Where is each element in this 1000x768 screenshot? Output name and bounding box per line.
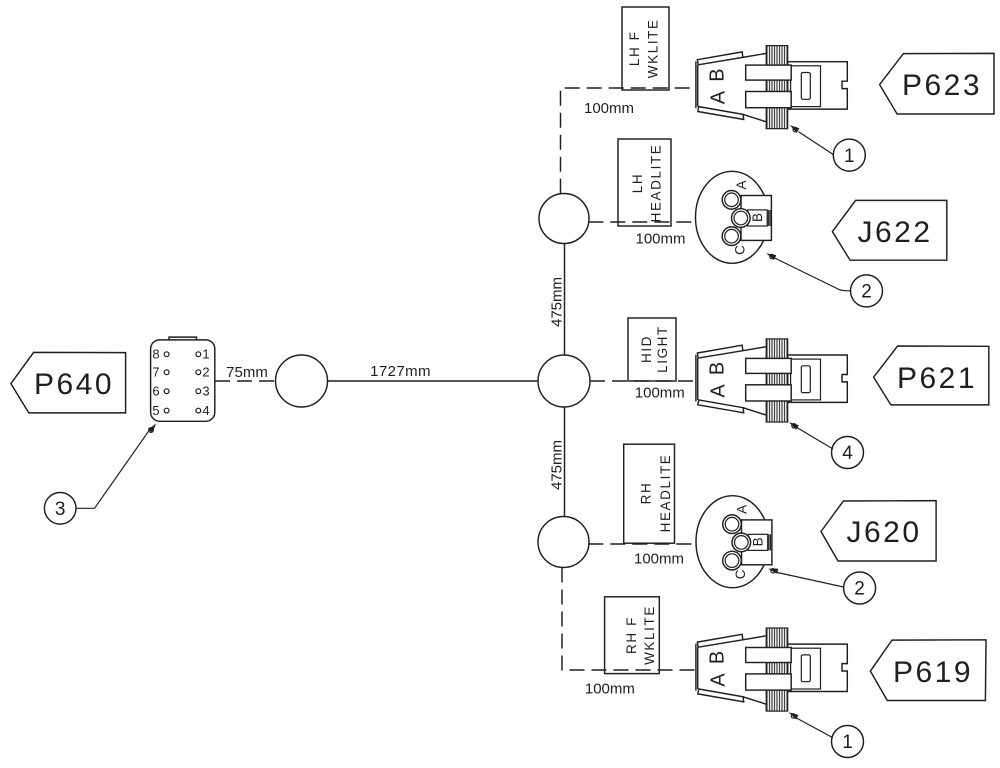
pin 3 bbox=[196, 384, 210, 399]
wire S2 down to S4 bbox=[564, 407, 566, 517]
flag P623 bbox=[880, 53, 994, 114]
svg-text:WKLITE: WKLITE bbox=[642, 605, 657, 665]
wire S2 up to S3 bbox=[564, 244, 566, 356]
svg-text:4: 4 bbox=[202, 403, 209, 418]
pin 6 bbox=[152, 384, 169, 399]
callout 2 leader (J622) bbox=[766, 253, 850, 291]
svg-text:J622: J622 bbox=[857, 216, 932, 249]
svg-text:P619: P619 bbox=[893, 656, 973, 689]
svg-text:100mm: 100mm bbox=[584, 100, 634, 117]
pin 8 bbox=[152, 347, 169, 362]
svg-text:LH F: LH F bbox=[627, 30, 642, 66]
label HID LIGHT bbox=[628, 318, 676, 381]
wire S3 to P623 bbox=[561, 88, 696, 194]
svg-text:6: 6 bbox=[152, 384, 159, 399]
flag J622 bbox=[832, 200, 946, 260]
connector P621 bbox=[696, 339, 847, 422]
flag P640 bbox=[11, 352, 126, 413]
callout 3 leader (X1) bbox=[76, 423, 156, 508]
connector X1 8-pin bbox=[151, 337, 215, 421]
splice S3 bbox=[539, 194, 589, 244]
svg-text:1727mm: 1727mm bbox=[370, 363, 431, 380]
svg-text:1: 1 bbox=[844, 146, 855, 167]
svg-text:5: 5 bbox=[152, 403, 159, 418]
svg-text:2: 2 bbox=[854, 579, 865, 600]
splice S1 bbox=[276, 355, 328, 407]
wire S4 to P619 bbox=[562, 568, 696, 671]
label RH HEADLITE bbox=[624, 444, 675, 543]
svg-text:100mm: 100mm bbox=[634, 551, 684, 568]
pin 7 bbox=[152, 365, 169, 380]
svg-text:1: 1 bbox=[842, 732, 853, 753]
wire S4 to J620 bbox=[588, 543, 696, 545]
svg-text:P623: P623 bbox=[902, 69, 982, 102]
flag P621 bbox=[874, 346, 989, 405]
svg-text:8: 8 bbox=[152, 347, 159, 362]
callout 4 leader (P621) bbox=[789, 422, 833, 449]
callout 2 circle lower bbox=[844, 572, 876, 604]
svg-text:3: 3 bbox=[202, 384, 209, 399]
svg-text:475mm: 475mm bbox=[548, 440, 565, 490]
label LH HEADLITE bbox=[618, 139, 671, 226]
svg-text:HID: HID bbox=[639, 335, 654, 363]
callout 2 circle bbox=[851, 275, 883, 307]
flag P619 bbox=[870, 640, 986, 701]
svg-text:100mm: 100mm bbox=[635, 231, 685, 248]
wire S1 to S2 bbox=[328, 380, 539, 382]
svg-text:P621: P621 bbox=[897, 362, 977, 395]
callout 3 circle bbox=[44, 493, 76, 525]
connector P619 bbox=[696, 628, 847, 711]
svg-text:P640: P640 bbox=[34, 368, 114, 401]
svg-text:2: 2 bbox=[861, 282, 872, 303]
svg-text:75mm: 75mm bbox=[226, 364, 268, 381]
splice S2 bbox=[538, 355, 590, 407]
svg-text:J620: J620 bbox=[846, 516, 921, 549]
svg-text:2: 2 bbox=[202, 365, 209, 380]
pin 2 bbox=[196, 365, 210, 380]
callout 1 leader (P619) bbox=[789, 712, 833, 737]
connector J622 bbox=[696, 171, 772, 263]
pin 5 bbox=[152, 403, 169, 418]
svg-text:RH: RH bbox=[638, 482, 653, 505]
svg-text:3: 3 bbox=[55, 499, 66, 520]
pin 1 bbox=[196, 347, 210, 362]
svg-text:4: 4 bbox=[842, 443, 853, 464]
svg-text:LH: LH bbox=[630, 173, 645, 193]
wire S2 to P621 bbox=[590, 380, 696, 382]
label RH F WKLITE bbox=[605, 597, 660, 674]
flag J620 bbox=[821, 501, 936, 561]
svg-text:100mm: 100mm bbox=[635, 385, 685, 402]
wire S3 to J622 bbox=[588, 221, 695, 223]
connector P623 bbox=[696, 46, 847, 129]
svg-text:HEADLITE: HEADLITE bbox=[658, 454, 673, 533]
svg-text:HEADLITE: HEADLITE bbox=[649, 144, 664, 223]
svg-text:475mm: 475mm bbox=[548, 277, 565, 327]
callout 1 circle bbox=[833, 139, 865, 171]
pin 4 bbox=[196, 403, 210, 418]
callout 1 leader (P623) bbox=[790, 125, 834, 155]
callout 1 circle lower bbox=[832, 726, 864, 758]
svg-text:7: 7 bbox=[152, 365, 159, 380]
connector J620 bbox=[696, 496, 772, 588]
label LH F WKLITE bbox=[622, 7, 669, 90]
callout 2 leader (J620) bbox=[768, 569, 844, 587]
svg-text:LIGHT: LIGHT bbox=[655, 325, 670, 373]
svg-text:100mm: 100mm bbox=[585, 681, 635, 698]
svg-text:WKLITE: WKLITE bbox=[645, 18, 660, 78]
svg-text:RH F: RH F bbox=[624, 616, 639, 654]
splice S4 bbox=[538, 517, 589, 568]
callout 4 circle bbox=[832, 437, 864, 469]
wire X1 to splice S1 bbox=[215, 380, 276, 382]
svg-text:1: 1 bbox=[202, 347, 209, 362]
